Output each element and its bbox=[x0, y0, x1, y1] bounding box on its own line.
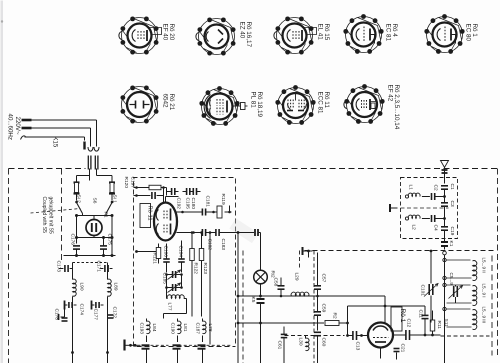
svg-text:L5...9 I: L5...9 I bbox=[482, 284, 487, 298]
label L1 bbox=[408, 185, 414, 191]
wire bus R11 bbox=[417, 334, 441, 337]
label Rö15 EL41 bbox=[317, 24, 331, 41]
capacitor C2 bbox=[432, 193, 446, 200]
svg-text:C1: C1 bbox=[449, 184, 455, 190]
tube socket Rö1 EC80 bbox=[424, 14, 464, 54]
connector K5 bbox=[257, 299, 265, 363]
label Rö2..14 EF42 bbox=[387, 85, 401, 130]
trimmer C101 bbox=[424, 250, 438, 323]
capacitor C177 bbox=[92, 301, 104, 310]
label Si1 bbox=[112, 195, 118, 204]
label R123 bbox=[202, 263, 208, 275]
label C187 L78 bbox=[195, 323, 214, 335]
capacitor C1 bbox=[441, 186, 448, 197]
label C21 bbox=[394, 344, 406, 360]
chassis border left bbox=[8, 169, 10, 363]
ground tap bbox=[303, 247, 313, 258]
tube Rö1 envelope bbox=[368, 323, 393, 348]
capacitor C181 bbox=[202, 209, 215, 216]
scan edge shading bbox=[1, 1, 4, 363]
label L5-9 I bbox=[482, 284, 487, 298]
capacitor C60 bbox=[314, 332, 321, 363]
wire junction x347 bbox=[346, 306, 349, 337]
contact c bbox=[443, 283, 446, 286]
svg-text:L78: L78 bbox=[207, 324, 213, 332]
chassis divider dashed bbox=[61, 169, 63, 263]
capacitor C176 bbox=[73, 246, 80, 256]
svg-text:6542: 6542 bbox=[162, 94, 169, 109]
svg-text:R121: R121 bbox=[152, 253, 158, 265]
wire down mid bbox=[237, 231, 240, 363]
capacitor C173 bbox=[59, 263, 73, 273]
svg-text:R123: R123 bbox=[202, 263, 208, 275]
coil L30 bbox=[306, 336, 310, 351]
label L89 bbox=[113, 283, 119, 291]
wire L89 bottom bbox=[107, 297, 109, 363]
capacitor C12 bbox=[393, 330, 417, 340]
scan artifact streak bbox=[229, 218, 258, 243]
svg-text:R122: R122 bbox=[193, 263, 199, 275]
svg-text:C4: C4 bbox=[433, 225, 439, 231]
svg-text:C61: C61 bbox=[277, 341, 283, 350]
label C1 bbox=[449, 184, 455, 190]
wire anode row bbox=[177, 211, 203, 214]
svg-text:L84: L84 bbox=[151, 324, 157, 332]
svg-text:C178: C178 bbox=[54, 309, 60, 321]
tube socket Rö2,3,5..10,14 EF42 bbox=[344, 84, 385, 124]
wire plate long bbox=[237, 322, 324, 325]
svg-text:EC 80: EC 80 bbox=[465, 24, 472, 42]
svg-text:L30: L30 bbox=[298, 338, 304, 346]
svg-text:C57: C57 bbox=[321, 274, 327, 283]
capacitor C178 bbox=[59, 310, 68, 322]
svg-text:40...60Hz: 40...60Hz bbox=[7, 114, 14, 140]
svg-text:K15: K15 bbox=[52, 137, 58, 148]
svg-text:EF 40: EF 40 bbox=[162, 24, 169, 41]
capacitor C197 bbox=[135, 186, 165, 203]
label Rö21 6542 bbox=[162, 94, 176, 111]
svg-text:R2: R2 bbox=[332, 313, 338, 319]
svg-text:C21: C21 bbox=[400, 344, 406, 353]
trimmer C185a bbox=[165, 270, 183, 280]
wire screen down bbox=[209, 231, 212, 344]
capacitor C182 bbox=[202, 229, 216, 236]
tube socket Rö16,17 EZ40 bbox=[196, 17, 236, 55]
label R1 bbox=[103, 212, 109, 218]
label Rö11 ECC81 bbox=[317, 92, 331, 115]
label C185 bbox=[162, 273, 168, 285]
contact b bbox=[443, 276, 446, 279]
coil L2 bbox=[405, 215, 430, 220]
coil L77 bbox=[164, 295, 187, 319]
tube Rö1 internals bbox=[373, 326, 389, 359]
label R120 C197 bbox=[123, 177, 136, 189]
resistor R2 bbox=[325, 321, 348, 326]
svg-text:L5...9 III: L5...9 III bbox=[482, 307, 487, 324]
svg-text:C193: C193 bbox=[139, 323, 145, 335]
fuse Si2 bbox=[74, 183, 80, 201]
label C192 bbox=[176, 198, 182, 210]
label box Rö1 bbox=[391, 307, 406, 331]
contact a bbox=[443, 258, 446, 261]
wire IF out bbox=[236, 232, 255, 234]
svg-text:L5...9 II: L5...9 II bbox=[482, 258, 487, 273]
resistor R122 bbox=[190, 231, 195, 316]
svg-text:C3: C3 bbox=[449, 201, 455, 207]
label R122 bbox=[193, 263, 199, 275]
svg-text:C172: C172 bbox=[112, 307, 118, 319]
wire tube top bbox=[166, 197, 179, 203]
switch S6 arm right bbox=[106, 201, 113, 214]
chassis border right bbox=[497, 169, 499, 356]
IF box bottom dashed bbox=[137, 346, 236, 348]
label C57 bbox=[321, 274, 327, 283]
antenna box divider bbox=[401, 207, 449, 209]
svg-text:gekuppelt mit S5: gekuppelt mit S5 bbox=[48, 197, 54, 234]
label C176 bbox=[70, 234, 76, 246]
tube Rö11 envelope bbox=[154, 203, 177, 241]
capacitor C59 bbox=[314, 296, 321, 331]
label Ri2 bbox=[270, 271, 276, 279]
switch K15 bbox=[21, 136, 85, 141]
connector K1 bbox=[441, 239, 448, 250]
label C4 bbox=[433, 225, 439, 231]
IF box dashed bbox=[134, 178, 236, 347]
label C11 bbox=[418, 310, 424, 319]
capacitor C58 bbox=[278, 278, 285, 298]
label R2 bbox=[332, 313, 338, 319]
label C19 bbox=[449, 227, 455, 236]
svg-text:220V~: 220V~ bbox=[14, 117, 21, 135]
label R11 bbox=[436, 321, 442, 330]
wire bus 255 bbox=[64, 244, 116, 258]
label C183 bbox=[220, 239, 226, 251]
svg-text:K1: K1 bbox=[448, 241, 454, 247]
coil L90 bbox=[73, 269, 77, 297]
capacitor C57 bbox=[314, 253, 321, 298]
connector pin bbox=[83, 142, 85, 150]
capacitor C193 bbox=[142, 345, 150, 363]
svg-text:EC 81: EC 81 bbox=[385, 24, 392, 42]
shield dashed top bbox=[305, 250, 494, 252]
label C186 bbox=[163, 246, 169, 258]
capacitor C3 bbox=[441, 197, 448, 219]
resistor R119 bbox=[216, 206, 232, 219]
svg-text:R1: R1 bbox=[103, 212, 109, 218]
tube socket Rö4 EC81 bbox=[343, 14, 383, 54]
capacitor C183 bbox=[216, 229, 236, 236]
coil L5-9 II bbox=[447, 260, 477, 280]
svg-text:C59: C59 bbox=[321, 304, 327, 313]
label C58 bbox=[273, 278, 279, 287]
capacitor C174 bbox=[65, 301, 77, 310]
svg-text:R120: R120 bbox=[123, 177, 129, 189]
svg-text:S6: S6 bbox=[92, 198, 98, 204]
svg-text:Rö 1: Rö 1 bbox=[399, 309, 406, 323]
svg-text:EL 41: EL 41 bbox=[317, 24, 324, 41]
switch contact bbox=[443, 251, 447, 363]
wire mains second bbox=[32, 128, 91, 147]
svg-text:L89: L89 bbox=[113, 283, 119, 291]
label L5-9 III bbox=[482, 307, 487, 324]
svg-text:C185: C185 bbox=[162, 273, 168, 285]
capacitor C11 bbox=[422, 306, 429, 335]
switch S6 arm left bbox=[75, 201, 82, 214]
svg-text:Rö 11: Rö 11 bbox=[147, 206, 153, 221]
label Si2 bbox=[76, 195, 82, 204]
label C59 bbox=[321, 304, 327, 313]
svg-text:C13: C13 bbox=[355, 342, 361, 351]
label C3 bbox=[449, 201, 455, 207]
label 220V 40..60Hz bbox=[7, 114, 22, 140]
svg-text:C173: C173 bbox=[56, 261, 62, 273]
svg-text:EZ 40: EZ 40 bbox=[239, 22, 246, 39]
svg-text:C184: C184 bbox=[178, 246, 184, 258]
resistor R121 bbox=[135, 244, 161, 264]
capacitor C171 bbox=[101, 263, 113, 273]
tube socket Rö21 6542 bbox=[120, 85, 158, 123]
svg-text:L1: L1 bbox=[408, 185, 414, 191]
label C101 bbox=[420, 285, 426, 297]
label C173 bbox=[56, 261, 62, 273]
svg-text:C197: C197 bbox=[130, 177, 136, 189]
dashed bus right bbox=[441, 335, 490, 337]
svg-text:C180: C180 bbox=[190, 198, 196, 210]
svg-text:C177: C177 bbox=[93, 309, 99, 321]
bus dashed bottom bbox=[151, 344, 232, 346]
ground stub bbox=[125, 340, 141, 351]
svg-text:C60: C60 bbox=[321, 338, 327, 347]
svg-text:C187: C187 bbox=[195, 323, 201, 335]
coil L89 bbox=[108, 269, 112, 297]
capacitor C13 bbox=[348, 331, 369, 340]
label L30 bbox=[298, 338, 304, 346]
svg-text:C58: C58 bbox=[273, 278, 279, 287]
wire into chassis bbox=[77, 169, 113, 182]
contact d bbox=[443, 307, 446, 310]
label K15 bbox=[52, 137, 58, 148]
tube socket Rö18,19 PL81 bbox=[199, 86, 247, 126]
label C13 bbox=[355, 342, 361, 351]
svg-text:C12: C12 bbox=[406, 319, 412, 328]
label C61 bbox=[277, 341, 283, 350]
resistor R120 bbox=[135, 185, 166, 190]
label C184 bbox=[178, 246, 184, 258]
capacitor C186 bbox=[163, 244, 170, 273]
coil L81 bbox=[178, 319, 182, 343]
svg-text:ECC 81: ECC 81 bbox=[317, 92, 324, 115]
label gekuppelt mit S5 bbox=[41, 197, 54, 234]
capacitor C175 bbox=[100, 236, 107, 256]
svg-text:L77: L77 bbox=[167, 303, 173, 311]
svg-text:C192: C192 bbox=[176, 198, 182, 210]
ballast lamp R1 bbox=[86, 216, 102, 238]
svg-text:PL 81: PL 81 bbox=[250, 92, 257, 109]
svg-text:C186: C186 bbox=[163, 246, 169, 258]
svg-text:C101: C101 bbox=[420, 285, 426, 297]
svg-text:K5: K5 bbox=[250, 297, 256, 303]
capacitor C192 bbox=[167, 188, 179, 196]
coil L1 bbox=[405, 193, 430, 198]
label K1 bbox=[448, 241, 454, 247]
label Rö1 EC80 bbox=[465, 24, 479, 42]
svg-text:C190: C190 bbox=[170, 323, 176, 335]
fuse Si1 bbox=[109, 183, 115, 201]
wire grid row bbox=[177, 231, 203, 234]
svg-text:S11: S11 bbox=[443, 319, 449, 328]
svg-text:C195: C195 bbox=[185, 198, 191, 210]
svg-text:C181: C181 bbox=[205, 196, 211, 208]
svg-text:R11: R11 bbox=[436, 321, 442, 330]
trimmer C185b bbox=[165, 275, 183, 293]
svg-text:C183: C183 bbox=[220, 239, 226, 251]
svg-text:EF 42: EF 42 bbox=[387, 85, 394, 102]
resistor R11 bbox=[430, 311, 435, 336]
svg-text:R119: R119 bbox=[220, 194, 226, 205]
label C171 bbox=[96, 261, 102, 273]
wire link right bbox=[385, 305, 425, 307]
antenna box dashed bbox=[401, 178, 458, 239]
mains plug pins bbox=[22, 120, 32, 128]
svg-text:C5...9: C5...9 bbox=[449, 273, 454, 286]
svg-text:C11: C11 bbox=[418, 310, 424, 319]
dashed down mid bbox=[242, 251, 244, 363]
wire top link bbox=[348, 296, 387, 323]
capacitor C19 bbox=[441, 219, 448, 239]
label S6 bbox=[92, 198, 98, 204]
label L29 bbox=[294, 273, 300, 281]
label C12 bbox=[406, 319, 412, 328]
dashed shield L30 bbox=[285, 335, 345, 337]
chassis border top bbox=[9, 168, 498, 170]
trimmer C5-9 bbox=[449, 285, 463, 303]
svg-text:L29: L29 bbox=[294, 273, 300, 281]
label C190 L81 bbox=[170, 323, 189, 335]
coil L84 bbox=[147, 319, 151, 343]
chassis border right inner bbox=[491, 256, 493, 356]
svg-text:C174: C174 bbox=[79, 304, 85, 316]
capacitor C172 bbox=[108, 269, 114, 319]
coil L5-9 III bbox=[447, 309, 477, 329]
svg-text:L90: L90 bbox=[79, 283, 85, 291]
tube socket Rö11 ECC81 bbox=[275, 85, 315, 125]
coil L29 bbox=[291, 292, 309, 296]
coupling link dashed bbox=[31, 209, 81, 214]
label Rö4 EC81 bbox=[385, 24, 399, 42]
label Rö20 EF40 bbox=[162, 24, 176, 41]
antenna bbox=[441, 161, 449, 184]
dial lamp Ri2 bbox=[254, 270, 268, 284]
label C182 bbox=[207, 239, 213, 251]
svg-text:L2: L2 bbox=[411, 225, 417, 231]
capacitor C61 bbox=[281, 327, 288, 363]
label L90 bbox=[79, 283, 85, 291]
wire to L77 bbox=[167, 288, 168, 299]
coil L5-9 I bbox=[447, 285, 477, 305]
wire grid long bbox=[237, 295, 385, 298]
label C60 bbox=[321, 338, 327, 347]
resistor R123 bbox=[199, 231, 204, 316]
wire mains top bbox=[32, 120, 97, 147]
coil L78 bbox=[203, 319, 207, 343]
label C2 bbox=[433, 185, 439, 191]
svg-text:Coupled with S5: Coupled with S5 bbox=[41, 197, 47, 234]
capacitor C187 bbox=[198, 345, 206, 363]
label C178 bbox=[54, 309, 60, 321]
capacitor C190 bbox=[173, 345, 181, 363]
tube socket Rö15 EL41 bbox=[274, 16, 317, 54]
svg-text:C176: C176 bbox=[70, 234, 76, 246]
connector sockets bbox=[88, 147, 99, 151]
wire lamp top bbox=[75, 214, 114, 218]
label C193 L84 bbox=[139, 323, 158, 335]
antenna chassis cap bbox=[390, 204, 398, 212]
svg-text:L81: L81 bbox=[182, 324, 188, 332]
label C181 bbox=[205, 196, 211, 208]
connector pins through chassis bbox=[88, 156, 98, 170]
label C5-9 bbox=[449, 273, 454, 286]
wire channel joins bbox=[71, 263, 109, 354]
label L2 bbox=[411, 225, 417, 231]
capacitor C195 C180 bbox=[183, 186, 201, 198]
label K5 bbox=[250, 297, 256, 303]
wire lamp down bbox=[260, 284, 262, 298]
wire L90 bottom bbox=[72, 297, 74, 363]
wire lamp sides bbox=[75, 216, 114, 244]
connector K plug bbox=[255, 229, 261, 270]
label L77 bbox=[167, 303, 173, 311]
label R121 bbox=[152, 253, 158, 265]
label C175 bbox=[107, 234, 113, 246]
label L5-9 II bbox=[482, 258, 487, 273]
label R119 bbox=[220, 194, 226, 205]
label C177 bbox=[93, 309, 99, 321]
shield dashed left bbox=[300, 251, 315, 363]
tube socket Rö20 EF40 bbox=[119, 16, 162, 54]
label C195 C180 bbox=[185, 198, 197, 210]
label C174 bbox=[79, 304, 85, 316]
svg-text:C2: C2 bbox=[433, 185, 439, 191]
wire box feed bbox=[134, 188, 137, 196]
label C172 bbox=[112, 307, 118, 319]
label Rö18,19 PL81 bbox=[250, 92, 264, 118]
label Rö16,17 EZ40 bbox=[239, 22, 253, 48]
svg-text:C19: C19 bbox=[449, 227, 455, 236]
label box Rö11 bbox=[140, 204, 153, 228]
capacitor C184 bbox=[178, 241, 185, 273]
label S11 bbox=[443, 319, 449, 328]
tube Rö11 internals bbox=[156, 209, 170, 235]
capacitor C4 bbox=[432, 215, 446, 222]
